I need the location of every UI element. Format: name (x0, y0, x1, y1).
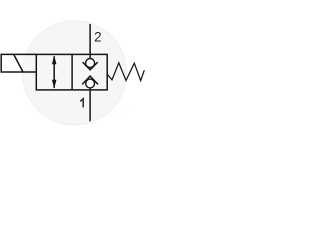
wire port 1 (89, 90, 91, 121)
arrow shaft (53, 56, 55, 88)
solenoid Y1 box (1, 54, 36, 72)
wire port 2 (89, 24, 91, 55)
watermark circle (23, 21, 127, 125)
box divider (71, 54, 73, 90)
seat chevron top (83, 62, 98, 70)
label port 1 (80, 99, 83, 108)
svg-text:2: 2 (94, 30, 101, 45)
ball bottom (86, 79, 95, 88)
seat line bottom (89, 88, 91, 90)
arrowhead down (52, 80, 57, 89)
seat chevron bottom (82, 76, 98, 84)
valve body boxes (36, 54, 107, 90)
seat line top (89, 54, 91, 59)
solenoid diagonal (14, 54, 23, 72)
ball top (86, 59, 95, 68)
spring (107, 63, 144, 81)
arrowhead up (52, 55, 57, 64)
